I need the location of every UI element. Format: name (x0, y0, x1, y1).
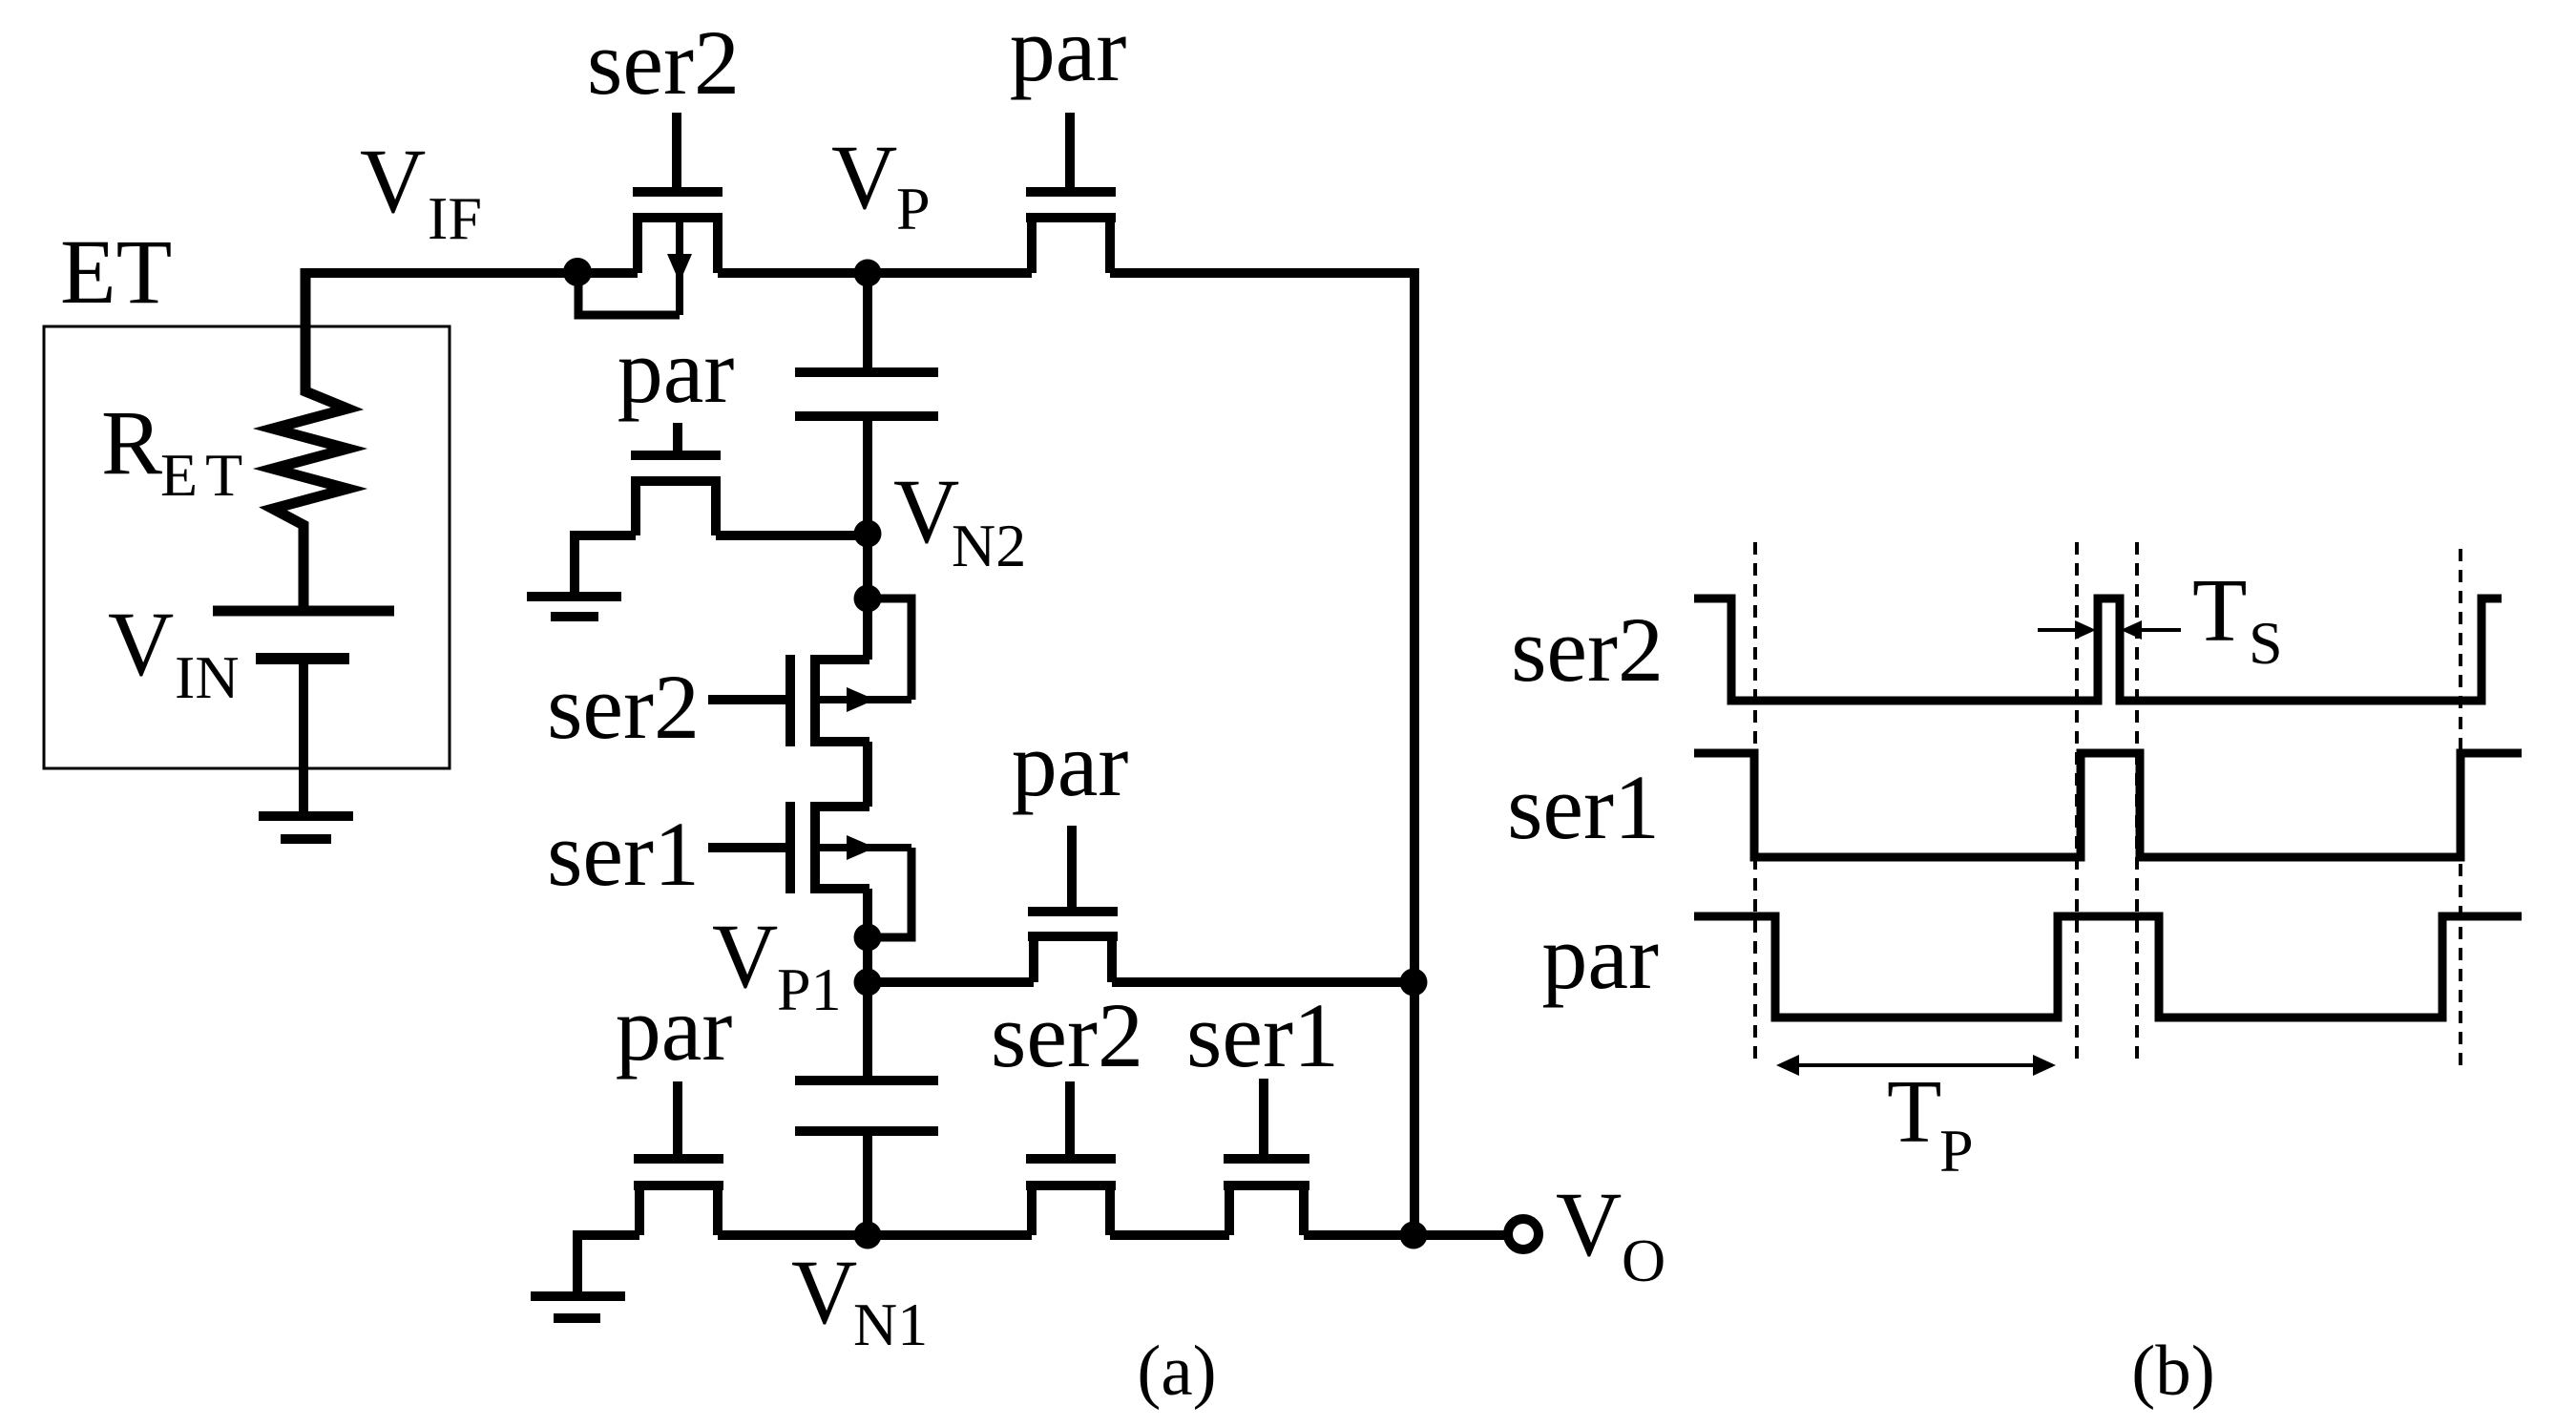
svg-text:IF: IF (428, 184, 482, 252)
wire V_N2 row left (575, 535, 636, 597)
svg-text:par: par (616, 977, 733, 1080)
ground (middle left) (527, 597, 621, 617)
transistor ser2 (top) (578, 113, 723, 315)
svg-text:ET: ET (160, 441, 250, 509)
svg-text:(b): (b) (2131, 1332, 2214, 1411)
wire top-right corner and right vertical (1110, 273, 1414, 1235)
waveform par (1694, 916, 2522, 1018)
transistor par (bottom left) (634, 1081, 723, 1235)
capacitor C2 (795, 1081, 938, 1235)
node V_IF label (360, 130, 482, 252)
svg-text:ser1: ser1 (1507, 756, 1660, 858)
svg-text:par: par (1010, 0, 1127, 100)
svg-text:ser2: ser2 (547, 656, 700, 758)
waveform ser1 (1694, 753, 2522, 857)
svg-text:ser2: ser2 (587, 11, 740, 114)
dashed gridline 1 (1753, 542, 1757, 1064)
svg-text:R: R (101, 391, 162, 493)
svg-text:V: V (1556, 1173, 1622, 1275)
T_P annotation arrow (1776, 1055, 2056, 1076)
wire V_N1 row left (577, 1235, 639, 1292)
capacitor C1 (795, 273, 938, 660)
svg-text:IN: IN (175, 643, 240, 711)
svg-text:par: par (1012, 713, 1129, 815)
transistor ser2 (vertical middle) (708, 598, 911, 746)
label V_N1 (791, 1241, 928, 1358)
transistor ser1 (vertical middle) (708, 802, 911, 937)
label R_ET (101, 391, 250, 509)
wire V_N2 row right (716, 531, 868, 540)
node V_N1 dot (854, 1222, 882, 1249)
svg-text:par: par (618, 320, 735, 422)
label V_O (1556, 1173, 1665, 1294)
svg-text:ser1: ser1 (1186, 984, 1339, 1086)
waveform ser2 (1694, 598, 2502, 701)
svg-text:ser1: ser1 (547, 803, 700, 905)
wire middle column (863, 742, 872, 1076)
svg-text:T: T (2192, 561, 2247, 661)
svg-text:ET: ET (60, 220, 172, 323)
svg-text:V: V (108, 593, 174, 695)
resistor R_ET (273, 268, 347, 607)
terminal V_O (1508, 1219, 1539, 1249)
transistor ser1 (bottom) (1224, 1079, 1309, 1235)
dashed gridline 4 (2459, 549, 2462, 1069)
svg-text:V: V (360, 130, 426, 232)
svg-text:V: V (831, 126, 897, 228)
dashed gridline 3 (2135, 542, 2139, 1066)
ground (ET) (259, 816, 353, 839)
svg-text:par: par (1541, 906, 1659, 1008)
junction dot V_O (1400, 1222, 1428, 1249)
node V_N2 dot (854, 520, 882, 548)
junction dot V_P1 right (1400, 969, 1428, 997)
svg-text:ser2: ser2 (1511, 598, 1664, 701)
wire V_IF horizontal (305, 268, 638, 278)
svg-text:S: S (2249, 609, 2283, 677)
transistor par (middle left) (631, 423, 721, 535)
wire V_P1 row (868, 977, 1414, 987)
label V_P1 (712, 905, 842, 1023)
junction dot bulk ser1 vertical (854, 924, 882, 952)
svg-text:V: V (791, 1241, 857, 1343)
transistor par (top right) (1026, 113, 1116, 273)
node V_P1 dot (854, 969, 882, 997)
svg-text:P1: P1 (777, 955, 842, 1023)
label V_IN (108, 593, 240, 711)
svg-text:O: O (1622, 1227, 1665, 1294)
svg-text:V: V (893, 460, 959, 562)
svg-text:ser2: ser2 (991, 984, 1143, 1086)
junction dot V_IF (563, 258, 592, 286)
node V_P dot (854, 260, 882, 287)
label V_N2 (893, 460, 1026, 579)
label V_P (831, 126, 931, 242)
transistor ser2 (bottom) (1026, 1081, 1116, 1235)
ET box (44, 326, 450, 768)
wire V_P row (718, 268, 1032, 278)
ground (bottom left) (531, 1296, 625, 1318)
battery V_IN (213, 611, 394, 812)
T_S annotation arrows (2038, 620, 2181, 640)
svg-text:P: P (896, 175, 931, 242)
junction dot bulk ser2 vertical (854, 585, 882, 613)
svg-text:P: P (1939, 1117, 1974, 1185)
svg-text:N1: N1 (853, 1291, 928, 1358)
transistor par (right, on V_P1 row) (1028, 826, 1118, 982)
wire V_N1 row (718, 1230, 1505, 1240)
label T_P (1887, 1062, 1974, 1185)
label T_S (2192, 561, 2283, 677)
dashed gridline 2 (2075, 542, 2079, 1066)
svg-text:T: T (1887, 1062, 1941, 1162)
svg-text:N2: N2 (952, 512, 1026, 579)
svg-text:(a): (a) (1137, 1332, 1216, 1411)
